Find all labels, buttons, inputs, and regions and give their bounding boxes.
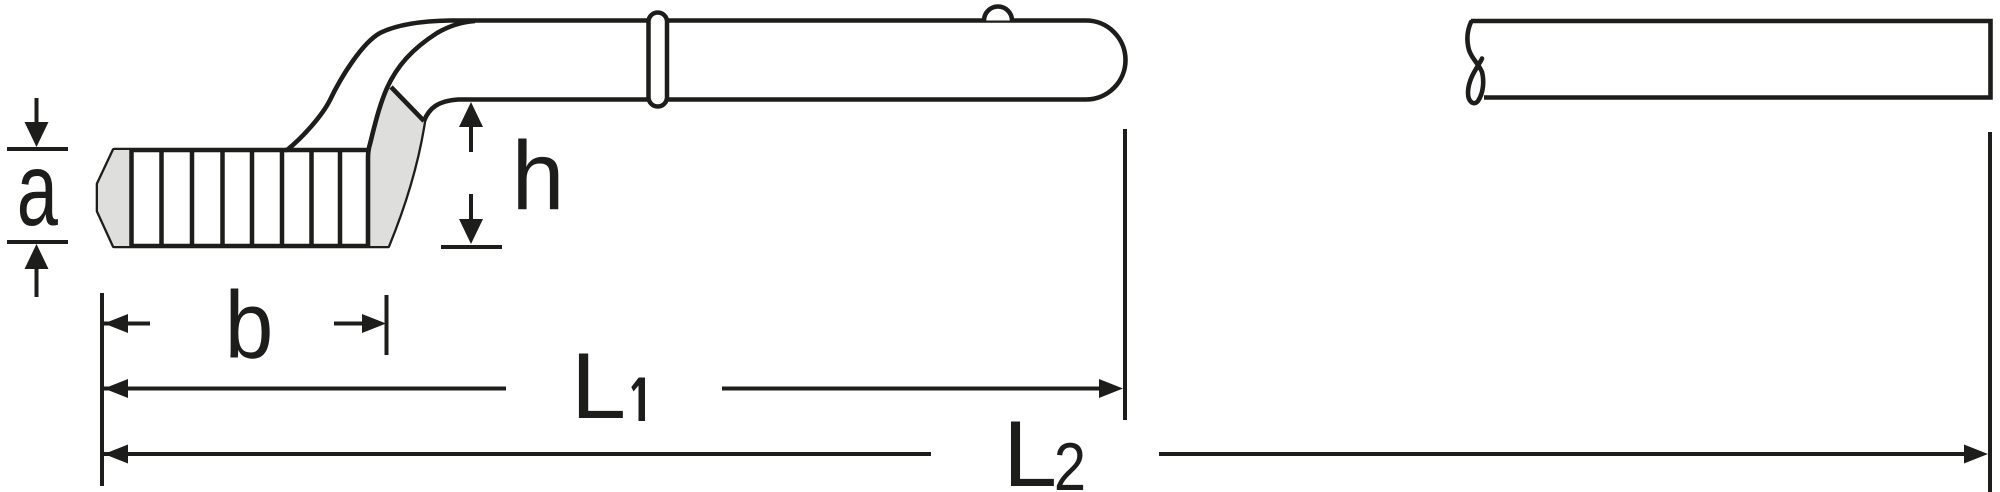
svg-text:L: L [1003, 401, 1057, 492]
svg-text:L: L [571, 333, 626, 439]
svg-text:2: 2 [1054, 430, 1086, 492]
svg-text:a: a [17, 132, 59, 248]
svg-text:h: h [512, 122, 565, 230]
svg-text:b: b [225, 272, 274, 379]
